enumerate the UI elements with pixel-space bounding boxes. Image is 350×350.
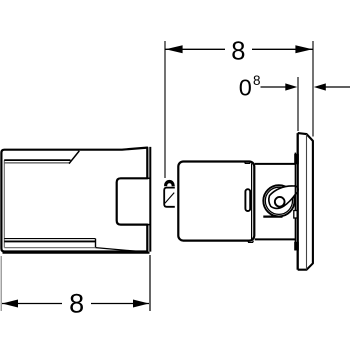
hook body [164, 188, 175, 207]
svg-text:8: 8 [69, 288, 84, 318]
roller inner circle [265, 187, 292, 214]
svg-text:8: 8 [253, 73, 261, 88]
housing bottom fold gray line [4, 247, 95, 249]
cylinder body [178, 162, 254, 241]
neck top line [255, 163, 296, 165]
bottom dimension arrow right [133, 300, 149, 308]
bottom dimension arrow left [2, 300, 18, 308]
thickness dimension extension line [297, 77, 299, 131]
bottom dimension extension line right [149, 255, 151, 311]
hook diagonal [165, 193, 174, 204]
housing right edge inner line upper [146, 151, 148, 178]
top dimension arrow right [295, 45, 312, 53]
cylinder bottom-right tab [248, 241, 254, 243]
thickness dimension arrow right [314, 83, 326, 90]
housing bottom fold line thick [4, 240, 95, 242]
bottom boss black [294, 242, 299, 251]
cylinder top-right notch [245, 162, 251, 164]
housing bottom fold line thin [4, 238, 95, 240]
top dimension extension line left [164, 41, 166, 178]
bottom dimension extension line left [0, 256, 2, 311]
small block on plate below arm [294, 211, 298, 219]
thickness dimension tail line [325, 86, 350, 88]
housing cover box outline [1, 148, 147, 252]
top dimension extension line right [312, 41, 314, 137]
wall plate front face line [297, 133, 299, 270]
wall plate profile [298, 133, 313, 270]
hook eyelet arch [164, 180, 175, 186]
wall plate crease line [306, 134, 308, 269]
roller bottom strap [263, 216, 282, 218]
housing bottom fold diagonal to corner [96, 248, 149, 253]
top boss black [294, 154, 299, 165]
svg-text:0: 0 [239, 75, 252, 101]
hub ring [275, 197, 285, 207]
housing top fold line gray [4, 162, 69, 164]
thickness dimension leader line [261, 86, 287, 88]
thickness dimension arrow left [285, 83, 297, 90]
housing bottom fold step [95, 239, 97, 248]
mounting face line [294, 153, 296, 251]
svg-text:8: 8 [231, 38, 245, 66]
roller outer circle [263, 185, 294, 216]
housing bottom edge [3, 252, 150, 254]
housing top fold diagonal [69, 151, 79, 164]
lever arm connecting rod [269, 186, 298, 209]
top dimension arrow left [166, 45, 183, 53]
cylinder slot [245, 189, 250, 211]
housing inner left wall line [3, 160, 5, 247]
bottom dimension line [2, 303, 149, 305]
cylinder right edge inner line [251, 164, 253, 240]
housing top fold line dark [4, 159, 70, 161]
housing notch top line to outer lip [147, 177, 150, 179]
housing notch bottom line to outer lip [147, 224, 150, 226]
top dimension line [165, 48, 313, 50]
housing right edge inner line lower [146, 225, 148, 251]
neck bottom line [255, 238, 296, 240]
housing right edge outer lip [149, 147, 151, 252]
